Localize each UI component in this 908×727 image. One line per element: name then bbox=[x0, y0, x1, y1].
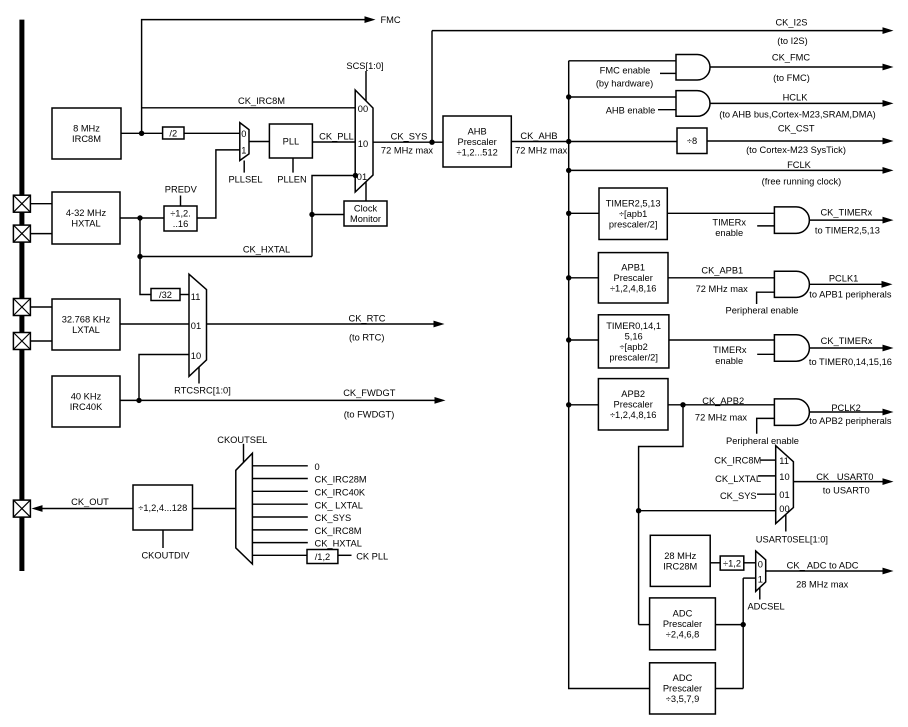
node CK_HXTAL tap bbox=[137, 254, 142, 259]
arrow CK_I2S bbox=[883, 27, 894, 34]
wire PLLSEL mux to PLL bbox=[249, 141, 269, 143]
and gate FMC enable bbox=[676, 55, 710, 81]
svg-text:IRC8M: IRC8M bbox=[72, 134, 101, 144]
wire USART mux input 10 bbox=[758, 475, 776, 477]
wire /32 to RTC mux input 11 bbox=[180, 294, 189, 296]
svg-text:11: 11 bbox=[779, 456, 789, 466]
oscillator IRC8M bbox=[52, 108, 121, 159]
node IRC40K tap bbox=[136, 398, 141, 403]
wire USART0SEL stub bbox=[785, 515, 787, 532]
svg-text:to APB2 peripherals: to APB2 peripherals bbox=[809, 416, 892, 426]
svg-text:CK_SYS: CK_SYS bbox=[315, 513, 352, 523]
svg-text:Clock: Clock bbox=[354, 204, 378, 214]
svg-text:CK_I2S: CK_I2S bbox=[775, 17, 807, 27]
and gate APB1 peripheral enable bbox=[774, 271, 809, 297]
svg-text:÷1,2...512: ÷1,2...512 bbox=[457, 147, 498, 157]
node trunk TIMER0 bbox=[566, 337, 571, 342]
wire CKOUT mux output to CKOUTDIV bbox=[193, 508, 237, 510]
svg-text:APB1: APB1 bbox=[621, 263, 645, 273]
svg-text:5,16: 5,16 bbox=[625, 331, 643, 341]
svg-text:AHB enable: AHB enable bbox=[606, 106, 656, 116]
wire node to clock monitor bbox=[312, 214, 344, 216]
svg-text:PCLK2: PCLK2 bbox=[831, 403, 860, 413]
svg-text:72 MHz max: 72 MHz max bbox=[381, 145, 434, 155]
wire SCS select stub bbox=[365, 71, 367, 102]
wire CK_ADC run bbox=[766, 570, 883, 572]
arrow PCLK1 bbox=[882, 281, 893, 288]
node clock monitor tap bbox=[309, 212, 314, 217]
wire APB2 peripheral enable input bbox=[757, 418, 775, 433]
prescaler PREDV bbox=[164, 206, 197, 231]
AHB prescaler bbox=[443, 116, 511, 167]
wire TIMERx enable input 2 bbox=[757, 353, 774, 355]
wire CK_TIMERx run bbox=[809, 219, 883, 221]
wire CK_AHB run bbox=[511, 141, 677, 143]
wire HXTAL output to PREDV bbox=[120, 217, 164, 219]
svg-text:(to Cortex-M23 SysTick): (to Cortex-M23 SysTick) bbox=[746, 145, 846, 155]
svg-text:CK_LXTAL: CK_LXTAL bbox=[715, 474, 761, 484]
wire AHB enable input bbox=[658, 109, 676, 111]
wire ADC mux input 1 bbox=[743, 577, 756, 579]
svg-text:CK_AHB: CK_AHB bbox=[520, 131, 557, 141]
divider /2 bbox=[163, 127, 184, 139]
divider CST /8 bbox=[677, 128, 707, 154]
node trunk AHB bbox=[566, 94, 571, 99]
oscillator LXTAL bbox=[52, 299, 120, 350]
svg-text:PLL: PLL bbox=[283, 136, 300, 146]
wire clock monitor to SCS mux bbox=[365, 182, 367, 201]
oscillator HXTAL bbox=[52, 192, 120, 244]
oscillator IRC28M bbox=[650, 535, 710, 586]
svg-text:ADC: ADC bbox=[673, 673, 693, 683]
APB2 prescaler bbox=[598, 379, 668, 430]
wire /1,2 to CK PLL bbox=[338, 554, 352, 556]
wire LXTAL pin bottom bbox=[31, 340, 53, 342]
svg-text:CK_FMC: CK_FMC bbox=[772, 53, 811, 63]
svg-text:CK_SYS: CK_SYS bbox=[720, 491, 757, 501]
svg-text:CK_CST: CK_CST bbox=[778, 123, 815, 133]
svg-text:4-32 MHz: 4-32 MHz bbox=[66, 208, 107, 218]
and gate AHB enable bbox=[676, 91, 710, 117]
svg-text:CK_RTC: CK_RTC bbox=[348, 313, 385, 323]
svg-text:Peripheral enable: Peripheral enable bbox=[726, 305, 799, 315]
arrow CK_FWDGT bbox=[435, 397, 446, 404]
arrow CK_ADC bbox=[883, 568, 894, 575]
svg-text:HXTAL: HXTAL bbox=[71, 219, 100, 229]
svg-text:÷1,2,4,8,16: ÷1,2,4,8,16 bbox=[610, 284, 656, 294]
svg-text:enable: enable bbox=[715, 228, 743, 238]
svg-text:AHB: AHB bbox=[468, 126, 487, 136]
svg-text:10: 10 bbox=[358, 139, 368, 149]
svg-text:CK_IRC8M: CK_IRC8M bbox=[714, 456, 761, 466]
svg-text:01: 01 bbox=[357, 172, 367, 182]
svg-text:CK_PLL: CK_PLL bbox=[319, 132, 354, 142]
svg-text:÷1,2: ÷1,2 bbox=[723, 558, 741, 568]
wire CKOUT mux input CK_SYS bbox=[253, 516, 308, 518]
svg-text:72 MHz max: 72 MHz max bbox=[515, 145, 568, 155]
svg-text:CK_ LXTAL: CK_ LXTAL bbox=[315, 500, 363, 510]
clock monitor bbox=[344, 201, 387, 226]
svg-text:SCS[1:0]: SCS[1:0] bbox=[346, 61, 383, 71]
oscillator IRC40K bbox=[52, 376, 120, 427]
arrow PCLK2 bbox=[883, 409, 894, 416]
node HXTAL tap bbox=[137, 215, 142, 220]
svg-text:0: 0 bbox=[758, 560, 763, 570]
svg-text:10: 10 bbox=[191, 351, 201, 361]
wire ADC prescaler 3579 output bbox=[715, 688, 743, 690]
svg-text:Prescaler: Prescaler bbox=[663, 684, 702, 694]
mux SCS system clock bbox=[355, 90, 373, 192]
wire CK_USART0 run bbox=[793, 481, 883, 483]
wire CK_I2S run bbox=[432, 30, 883, 32]
svg-text:72 MHz max: 72 MHz max bbox=[696, 284, 749, 294]
svg-text:CK_TIMERx: CK_TIMERx bbox=[820, 207, 872, 217]
divider ADC /1,2 bbox=[720, 556, 744, 570]
wire CK_APB2 tap down bbox=[639, 405, 683, 625]
svg-text:÷2,4,6,8: ÷2,4,6,8 bbox=[666, 630, 700, 640]
wire CKOUT mux input /1,2 bbox=[253, 554, 310, 556]
svg-text:..16: ..16 bbox=[173, 219, 189, 229]
svg-text:PREDV: PREDV bbox=[165, 185, 198, 195]
svg-text:to TIMER2,5,13: to TIMER2,5,13 bbox=[815, 226, 880, 236]
and gate APB2 peripheral enable bbox=[774, 399, 809, 426]
svg-text:32.768 KHz: 32.768 KHz bbox=[62, 315, 111, 325]
node trunk APB1 bbox=[566, 275, 571, 280]
svg-text:CK_IRC8M: CK_IRC8M bbox=[315, 526, 362, 536]
APB1 prescaler bbox=[598, 253, 668, 303]
divider /1,2 bbox=[307, 550, 338, 564]
svg-text:÷8: ÷8 bbox=[687, 136, 697, 146]
wire CK_APB1 run bbox=[668, 277, 774, 279]
svg-text:FMC: FMC bbox=[381, 15, 401, 25]
wire CK_OUT run bbox=[42, 508, 133, 510]
pin pad LXTAL OSC32OUT bbox=[13, 333, 30, 350]
wire HCLK run bbox=[710, 102, 883, 104]
node CK_SYS tap bbox=[429, 140, 434, 145]
wire HXTAL pin bottom bbox=[31, 233, 53, 235]
svg-text:CK_FWDGT: CK_FWDGT bbox=[343, 388, 395, 398]
and gate TIMERx enable bbox=[774, 207, 809, 234]
svg-text:RTCSRC[1:0]: RTCSRC[1:0] bbox=[174, 386, 231, 396]
node trunk TIMER2 bbox=[566, 211, 571, 216]
svg-text:/32: /32 bbox=[159, 290, 172, 300]
wire IRC28M to divider bbox=[710, 562, 720, 564]
svg-text:CK_ USART0: CK_ USART0 bbox=[816, 472, 873, 482]
thick pin bus bbox=[19, 20, 24, 571]
svg-text:(to I2S): (to I2S) bbox=[777, 36, 807, 46]
mux ADCSEL bbox=[756, 551, 766, 591]
svg-text:to TIMER0,14,15,16: to TIMER0,14,15,16 bbox=[809, 357, 892, 367]
wire USART mux input 11 bbox=[761, 459, 776, 461]
svg-text:IRC28M: IRC28M bbox=[663, 561, 697, 571]
arrow CK_TIMERx bbox=[883, 217, 894, 224]
pin pad CK_OUT bbox=[13, 500, 30, 517]
wire CK_CST run bbox=[707, 140, 883, 142]
svg-text:LXTAL: LXTAL bbox=[72, 325, 100, 335]
wire CK_APB2 run bbox=[668, 404, 774, 406]
svg-text:CK_APB1: CK_APB1 bbox=[701, 265, 743, 275]
svg-text:(to FWDGT): (to FWDGT) bbox=[344, 410, 395, 420]
wire CK_TIMERx run 2 bbox=[809, 347, 883, 349]
wire CK_FWDGT run bbox=[120, 399, 435, 401]
svg-text:prescaler/2]: prescaler/2] bbox=[609, 352, 658, 362]
svg-text:TIMER2,5,13: TIMER2,5,13 bbox=[606, 199, 661, 209]
wire CKOUTSEL select stub bbox=[243, 444, 245, 462]
wire CKOUT mux input 0 bbox=[253, 465, 308, 467]
wire FMC gate main input bbox=[569, 60, 676, 62]
svg-text:Prescaler: Prescaler bbox=[614, 273, 653, 283]
svg-text:÷1,2,4,8,16: ÷1,2,4,8,16 bbox=[610, 410, 656, 420]
svg-text:FCLK: FCLK bbox=[787, 160, 812, 170]
svg-text:10: 10 bbox=[779, 472, 789, 482]
svg-text:/1,2: /1,2 bbox=[315, 552, 331, 562]
wire USART mux input 00 bbox=[639, 510, 776, 512]
wire divider to ADC mux input 0 bbox=[744, 562, 756, 564]
pin pad HXTAL OSCIN bbox=[13, 195, 30, 212]
svg-text:FMC enable: FMC enable bbox=[600, 66, 651, 76]
wire trunk to APB1 box bbox=[569, 277, 599, 279]
wire LXTAL pin top bbox=[31, 306, 53, 308]
wire PLLSEL select stub bbox=[243, 161, 245, 173]
svg-text:ADCSEL: ADCSEL bbox=[747, 602, 784, 612]
svg-text:CK_IRC40K: CK_IRC40K bbox=[315, 487, 366, 497]
mux RTCSRC bbox=[189, 274, 207, 376]
svg-text:Prescaler: Prescaler bbox=[458, 137, 497, 147]
trunk HCLK distribution bbox=[569, 61, 650, 689]
wire CKOUTDIV select stub bbox=[162, 530, 164, 548]
node ADC prescaler join bbox=[741, 622, 746, 627]
wire CK_FMC run bbox=[710, 66, 883, 68]
svg-text:HCLK: HCLK bbox=[783, 93, 809, 103]
svg-text:÷[apb1: ÷[apb1 bbox=[619, 209, 647, 219]
ADC prescaler odd bbox=[650, 663, 716, 714]
wire CK_I2S riser bbox=[431, 31, 433, 143]
wire CKOUT mux input CK_IRC40K bbox=[253, 490, 308, 492]
wire APB1 peripheral enable input bbox=[757, 292, 775, 304]
arrow CK_USART0 bbox=[883, 478, 894, 485]
svg-text:CK_IRC8M: CK_IRC8M bbox=[238, 96, 285, 106]
svg-text:CKOUTDIV: CKOUTDIV bbox=[141, 551, 190, 561]
wire USART mux input 01 bbox=[757, 493, 776, 495]
arrow FMC bbox=[365, 16, 376, 23]
mux CKOUTSEL bbox=[236, 453, 253, 564]
divider /32 bbox=[151, 289, 180, 301]
svg-text:00: 00 bbox=[358, 104, 368, 114]
svg-text:0: 0 bbox=[241, 129, 246, 139]
arrow CK_RTC bbox=[434, 321, 445, 328]
wire CK_SYS output bbox=[373, 141, 443, 143]
mux PLLSEL bbox=[240, 123, 249, 161]
node SCS input 01 bbox=[353, 173, 358, 178]
wire FMC tap riser and run bbox=[142, 20, 365, 134]
svg-text:Peripheral enable: Peripheral enable bbox=[726, 436, 799, 446]
svg-text:CK_ ADC to ADC: CK_ ADC to ADC bbox=[787, 561, 859, 571]
svg-text:01: 01 bbox=[779, 490, 789, 500]
svg-text:1: 1 bbox=[241, 146, 246, 156]
wire PLLEN stub bbox=[292, 158, 294, 173]
node IRC8M tap bbox=[139, 131, 144, 136]
svg-text:CK_APB2: CK_APB2 bbox=[702, 396, 744, 406]
wire HXTAL node down to /32 bbox=[140, 218, 151, 295]
svg-text:8 MHz: 8 MHz bbox=[73, 124, 100, 134]
wire CKOUT mux input CK_LXTAL bbox=[253, 503, 308, 505]
svg-text:÷1,2,4...128: ÷1,2,4...128 bbox=[138, 503, 187, 513]
svg-text:APB2: APB2 bbox=[621, 389, 645, 399]
svg-text:72 MHz max: 72 MHz max bbox=[695, 412, 748, 422]
wire AHB gate main input bbox=[569, 96, 676, 98]
node trunk CST bbox=[566, 139, 571, 144]
TIMER0,14,15,16 multiplier bbox=[598, 315, 669, 368]
svg-text:40 KHz: 40 KHz bbox=[71, 392, 102, 402]
svg-text:28 MHz: 28 MHz bbox=[664, 551, 696, 561]
wire CK_RTC run bbox=[207, 323, 435, 325]
wire ADC prescaler 2468 output bbox=[715, 624, 743, 626]
svg-text:(by hardware): (by hardware) bbox=[596, 79, 653, 89]
wire ADC prescaler riser bbox=[742, 578, 744, 688]
svg-text:(free running clock): (free running clock) bbox=[762, 177, 842, 187]
wire FMC enable input bbox=[660, 72, 676, 74]
divider CKOUTDIV bbox=[133, 485, 193, 530]
svg-text:CK_HXTAL: CK_HXTAL bbox=[243, 245, 290, 255]
and gate TIMERx enable 2 bbox=[774, 335, 809, 361]
pll U1 bbox=[269, 124, 312, 158]
svg-text:(to AHB bus,Cortex-M23,SRAM,DM: (to AHB bus,Cortex-M23,SRAM,DMA) bbox=[719, 110, 876, 120]
svg-text:CK_IRC28M: CK_IRC28M bbox=[315, 475, 367, 485]
arrow FCLK bbox=[883, 167, 894, 174]
pin pad HXTAL OSCOUT bbox=[13, 225, 30, 242]
arrow HCLK bbox=[883, 100, 894, 107]
wire HXTAL pin top bbox=[31, 203, 53, 205]
svg-text:CK PLL: CK PLL bbox=[356, 552, 388, 562]
svg-text:Prescaler: Prescaler bbox=[614, 400, 653, 410]
svg-text:USART0SEL[1:0]: USART0SEL[1:0] bbox=[756, 535, 828, 545]
arrow CK_OUT bbox=[32, 505, 43, 512]
ADC prescaler even bbox=[650, 598, 716, 650]
svg-text:CK_TIMERx: CK_TIMERx bbox=[821, 336, 873, 346]
node trunk APB2 bbox=[566, 402, 571, 407]
wire CKOUT mux input CK_IRC8M bbox=[253, 529, 308, 531]
svg-text:prescaler/2]: prescaler/2] bbox=[609, 220, 658, 230]
wire PREDV select stub bbox=[180, 196, 182, 207]
wire trunk to TIMER0 box bbox=[569, 339, 599, 341]
svg-text:01: 01 bbox=[191, 321, 201, 331]
svg-text:/2: /2 bbox=[169, 128, 177, 138]
node CK_APB2 tap bbox=[680, 402, 685, 407]
svg-text:TIMERx: TIMERx bbox=[713, 345, 747, 355]
svg-text:Prescaler: Prescaler bbox=[663, 619, 702, 629]
wire TIMER2 box to gate bbox=[667, 212, 774, 214]
wire ADCSEL stub bbox=[759, 588, 761, 600]
svg-text:IRC40K: IRC40K bbox=[70, 402, 103, 412]
wire CK_PLL to SCS mux input 10 bbox=[312, 141, 355, 143]
wire RTC mux select stub bbox=[198, 367, 200, 384]
wire FCLK run bbox=[569, 169, 883, 171]
wire PREDV to PLLSEL mux input 1 bbox=[197, 150, 240, 218]
wire /2 to PLLSEL mux input 0 bbox=[184, 132, 240, 134]
svg-text:CK_OUT: CK_OUT bbox=[71, 497, 109, 507]
svg-text:to APB1 peripherals: to APB1 peripherals bbox=[809, 289, 892, 299]
wire trunk to APB2 box bbox=[569, 404, 599, 406]
wire PCLK1 run bbox=[809, 283, 882, 285]
wire LXTAL to RTC mux input 01 bbox=[120, 323, 189, 325]
svg-text:÷[apb2: ÷[apb2 bbox=[619, 342, 647, 352]
pin pad LXTAL OSC32IN bbox=[13, 299, 30, 316]
node USART 00 tap bbox=[636, 508, 641, 513]
wire to ADC prescaler 2468 bbox=[639, 624, 650, 626]
wire CKOUT mux input CK_IRC28M bbox=[253, 478, 308, 480]
svg-text:TIMERx: TIMERx bbox=[712, 218, 746, 228]
wire CK_HXTAL run bbox=[140, 256, 312, 258]
svg-text:enable: enable bbox=[715, 356, 743, 366]
svg-text:÷1,2.: ÷1,2. bbox=[170, 209, 191, 219]
wire TIMERx enable input bbox=[757, 225, 774, 227]
wire IRC8M output to /2 bbox=[121, 132, 163, 134]
wire IRC40K to RTC mux input 10 bbox=[139, 355, 189, 401]
svg-text:÷3,5,7,9: ÷3,5,7,9 bbox=[666, 694, 700, 704]
TIMER2,5,13 multiplier bbox=[599, 188, 667, 240]
svg-text:28 MHz max: 28 MHz max bbox=[796, 580, 849, 590]
svg-text:1: 1 bbox=[758, 575, 763, 585]
svg-text:(to RTC): (to RTC) bbox=[349, 333, 384, 343]
svg-text:to USART0: to USART0 bbox=[823, 485, 870, 495]
mux USART0SEL bbox=[776, 446, 794, 524]
svg-text:CK_HXTAL: CK_HXTAL bbox=[315, 539, 362, 549]
wire trunk to TIMER2 box bbox=[569, 212, 599, 214]
svg-text:Monitor: Monitor bbox=[350, 214, 381, 224]
svg-text:11: 11 bbox=[191, 292, 201, 302]
arrow CK_CST bbox=[883, 138, 894, 145]
wire PCLK2 run bbox=[809, 411, 883, 413]
svg-text:0: 0 bbox=[315, 462, 320, 472]
svg-text:00: 00 bbox=[779, 504, 789, 514]
wire SCS mux input 01 loop bbox=[312, 176, 355, 257]
svg-text:ADC: ADC bbox=[673, 609, 693, 619]
svg-text:CK_SYS: CK_SYS bbox=[391, 132, 428, 142]
svg-text:PCLK1: PCLK1 bbox=[829, 273, 858, 283]
arrow CK_TIMERx 2 bbox=[883, 345, 894, 352]
svg-text:PLLEN: PLLEN bbox=[277, 175, 306, 185]
wire TIMER0 box to gate bbox=[669, 339, 775, 341]
svg-text:CKOUTSEL: CKOUTSEL bbox=[217, 435, 267, 445]
svg-text:(to FMC): (to FMC) bbox=[773, 73, 810, 83]
wire CK_IRC8M to SCS mux input 00 bbox=[142, 107, 356, 109]
wire CKOUT mux input CK_HXTAL bbox=[253, 542, 308, 544]
svg-text:PLLSEL: PLLSEL bbox=[228, 175, 262, 185]
node trunk FCLK bbox=[566, 168, 571, 173]
arrow CK_FMC bbox=[883, 64, 894, 71]
svg-text:TIMER0,14,1: TIMER0,14,1 bbox=[606, 321, 661, 331]
